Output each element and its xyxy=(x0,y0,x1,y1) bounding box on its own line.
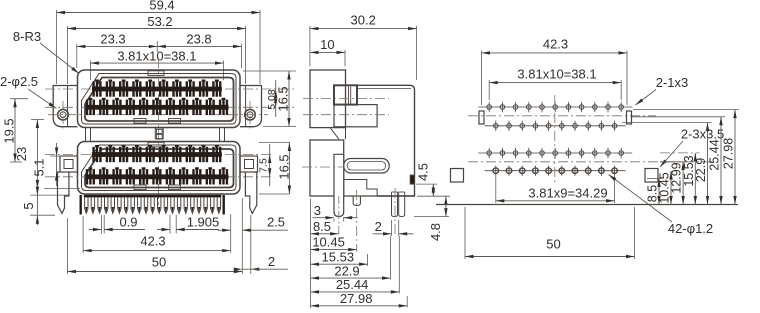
dim 2 middle xyxy=(373,219,414,236)
dim 5.08 xyxy=(266,80,278,117)
pin row 2b xyxy=(485,166,626,176)
upper pin rows xyxy=(85,80,228,116)
dim 19.5 xyxy=(2,99,29,162)
svg-text:5.1: 5.1 xyxy=(32,158,47,176)
right ear hole xyxy=(245,101,256,129)
svg-text:42.3: 42.3 xyxy=(543,37,568,52)
side arm xyxy=(344,159,390,174)
lower centerline row1 xyxy=(45,154,274,156)
dim 8.5 right stack xyxy=(646,179,661,205)
dim 23.8 xyxy=(157,32,241,69)
side lower block xyxy=(310,140,344,196)
svg-text:23.3: 23.3 xyxy=(100,32,125,47)
svg-text:42-φ1.2: 42-φ1.2 xyxy=(668,221,713,236)
pin row 1a xyxy=(478,102,632,112)
dim 16.5 upper xyxy=(243,71,296,127)
ext line 22.9 top xyxy=(622,122,712,124)
group2 centerline xyxy=(468,161,712,163)
dim 42.3 left view xyxy=(83,216,231,253)
svg-text:25.44: 25.44 xyxy=(708,139,722,170)
svg-text:59.4: 59.4 xyxy=(149,0,174,13)
left ear hole xyxy=(58,101,69,129)
right leg xyxy=(220,128,225,142)
dim 15.53 right stack xyxy=(682,153,697,205)
chain base extension line xyxy=(310,199,312,308)
center block xyxy=(155,128,163,139)
svg-text:5: 5 xyxy=(21,202,36,209)
svg-text:16.5: 16.5 xyxy=(277,154,292,179)
upper centerline row2 xyxy=(45,106,296,108)
dim 10.45 right stack xyxy=(658,171,673,205)
svg-text:8.5: 8.5 xyxy=(313,219,331,234)
svg-text:7.5: 7.5 xyxy=(257,158,269,173)
lower shell xyxy=(78,142,241,195)
dim 7.5 xyxy=(257,144,271,186)
side neck between blocks xyxy=(330,128,346,140)
label 8-R3 with leader xyxy=(13,29,79,74)
svg-text:42.3: 42.3 xyxy=(140,234,165,249)
dim 30.2 xyxy=(310,13,417,81)
side steps xyxy=(344,180,377,197)
ext line 27.98 top xyxy=(633,109,739,111)
svg-text:3.81x10=38.1: 3.81x10=38.1 xyxy=(117,49,196,64)
dim 23 xyxy=(14,120,80,189)
dim 5.1 xyxy=(32,143,79,186)
pin row 2a xyxy=(478,148,632,158)
svg-text:19.5: 19.5 xyxy=(2,118,17,143)
svg-text:3: 3 xyxy=(314,203,321,218)
dim 50 right xyxy=(465,207,635,259)
group1 centerline xyxy=(468,115,656,117)
side pin tail rect xyxy=(410,175,414,184)
comb terminal pins xyxy=(80,195,225,215)
dim 25.44 middle xyxy=(311,236,400,294)
dim 22.9 middle xyxy=(311,236,391,280)
side shield thick rect xyxy=(334,85,357,104)
svg-text:1.905: 1.905 xyxy=(187,215,220,230)
left 3x3.5 pad xyxy=(451,169,464,183)
pin row 1b xyxy=(485,121,626,131)
right mounting ear xyxy=(240,86,262,127)
side centerline lower xyxy=(302,166,344,168)
dim 22.9 right stack xyxy=(694,123,709,205)
dim 0.9 xyxy=(89,215,145,234)
side port rect xyxy=(334,105,377,127)
svg-text:23: 23 xyxy=(14,147,29,161)
label 2-3x3.5 xyxy=(660,127,724,168)
label 2-phi2.5 with leader xyxy=(0,74,57,109)
ext line 15.53 top xyxy=(660,152,700,154)
dim 3.81x10=38.1 right xyxy=(489,67,621,101)
svg-text:4.5: 4.5 xyxy=(416,163,431,181)
lower pin rows xyxy=(85,145,228,185)
dim 10 xyxy=(310,37,345,66)
svg-text:15.53: 15.53 xyxy=(322,249,355,264)
svg-text:8-R3: 8-R3 xyxy=(13,29,41,44)
svg-text:0.9: 0.9 xyxy=(119,215,137,230)
svg-text:50: 50 xyxy=(546,237,560,252)
ext line 25.44 top xyxy=(632,116,725,118)
svg-text:10.45: 10.45 xyxy=(312,235,345,250)
svg-text:16.5: 16.5 xyxy=(275,86,290,111)
dim 10.45 middle xyxy=(311,235,357,252)
dim 27.98 middle xyxy=(311,291,408,308)
svg-text:2-1x3: 2-1x3 xyxy=(656,75,689,90)
pcb baseline xyxy=(436,204,738,206)
dim 2.5 xyxy=(218,214,288,253)
lower centerline row2 xyxy=(45,176,274,178)
label 2-1x3 xyxy=(636,75,689,105)
dim 23.3 xyxy=(77,32,158,69)
dim 2 left view xyxy=(234,215,288,274)
left 1x3 pad xyxy=(479,111,484,124)
side centerline upper2 xyxy=(303,114,389,116)
svg-text:4.8: 4.8 xyxy=(428,223,443,241)
left bracket xyxy=(58,172,69,214)
side upper block xyxy=(310,70,346,128)
svg-text:30.2: 30.2 xyxy=(351,13,376,28)
dim 3.81x10=38.1 upper xyxy=(90,49,223,81)
svg-text:53.2: 53.2 xyxy=(147,14,172,29)
dim 59.4 overall width xyxy=(57,0,261,84)
ext line 12.99 top xyxy=(660,161,687,163)
right 1x3 pad xyxy=(627,111,632,124)
upper centerline row1 xyxy=(45,88,296,90)
vertical centerline left view xyxy=(158,58,160,205)
dim 25.44 right stack xyxy=(708,117,723,205)
side vertical centerline leg xyxy=(356,190,358,252)
dim 50 left view xyxy=(67,198,242,274)
side main body xyxy=(334,85,415,196)
right 3x3.5 pad xyxy=(645,169,658,183)
label 42-phi1.2 xyxy=(609,175,714,237)
side body inner top line xyxy=(357,87,411,89)
dim 3 middle xyxy=(312,203,357,221)
svg-text:2: 2 xyxy=(268,254,275,269)
side bracket bar xyxy=(334,154,344,235)
right view vertical centerline xyxy=(554,95,556,185)
dim 15.53 middle xyxy=(311,249,368,266)
svg-text:2.5: 2.5 xyxy=(267,215,285,230)
dim 27.98 right stack xyxy=(722,110,737,205)
svg-text:23.8: 23.8 xyxy=(186,32,211,47)
dim 5 xyxy=(21,185,70,225)
svg-text:22.9: 22.9 xyxy=(334,263,359,278)
left side tab xyxy=(60,156,78,172)
dim 8.5 middle xyxy=(311,219,339,236)
svg-text:22.9: 22.9 xyxy=(694,158,708,182)
svg-text:3.81x9=34.29: 3.81x9=34.29 xyxy=(528,186,607,201)
side bottom edge xyxy=(344,195,415,197)
right side tab xyxy=(240,156,258,172)
dim 53.2 xyxy=(67,14,245,84)
dim 16.5 lower xyxy=(259,143,292,195)
left mounting ear xyxy=(53,86,77,127)
dim 42.3 right xyxy=(482,37,628,106)
svg-text:25.44: 25.44 xyxy=(336,277,369,292)
ext line 8.5 top xyxy=(647,178,662,180)
dim 3.81x9=34.29 xyxy=(496,176,615,203)
ear hole centerline xyxy=(48,114,268,116)
side pins xyxy=(392,192,405,217)
dim 4.8 xyxy=(414,196,450,241)
left leg xyxy=(86,128,91,142)
side centerline upper1 xyxy=(303,98,389,100)
side vertical centerline pins xyxy=(394,188,396,234)
svg-text:2: 2 xyxy=(375,219,382,234)
side leg xyxy=(353,196,360,206)
svg-text:10: 10 xyxy=(320,37,334,52)
dim 1.905 xyxy=(157,215,219,234)
svg-text:2-φ2.5: 2-φ2.5 xyxy=(0,74,38,89)
upper shell xyxy=(78,70,241,128)
svg-text:2-3x3.5: 2-3x3.5 xyxy=(681,127,724,142)
dim 12.99 right stack xyxy=(670,162,685,205)
right bracket xyxy=(245,172,256,214)
svg-text:27.98: 27.98 xyxy=(722,138,736,169)
svg-text:50: 50 xyxy=(152,255,166,270)
svg-text:3.81x10=38.1: 3.81x10=38.1 xyxy=(517,67,596,82)
dim 4.5 xyxy=(416,163,438,196)
svg-text:27.98: 27.98 xyxy=(340,291,373,306)
